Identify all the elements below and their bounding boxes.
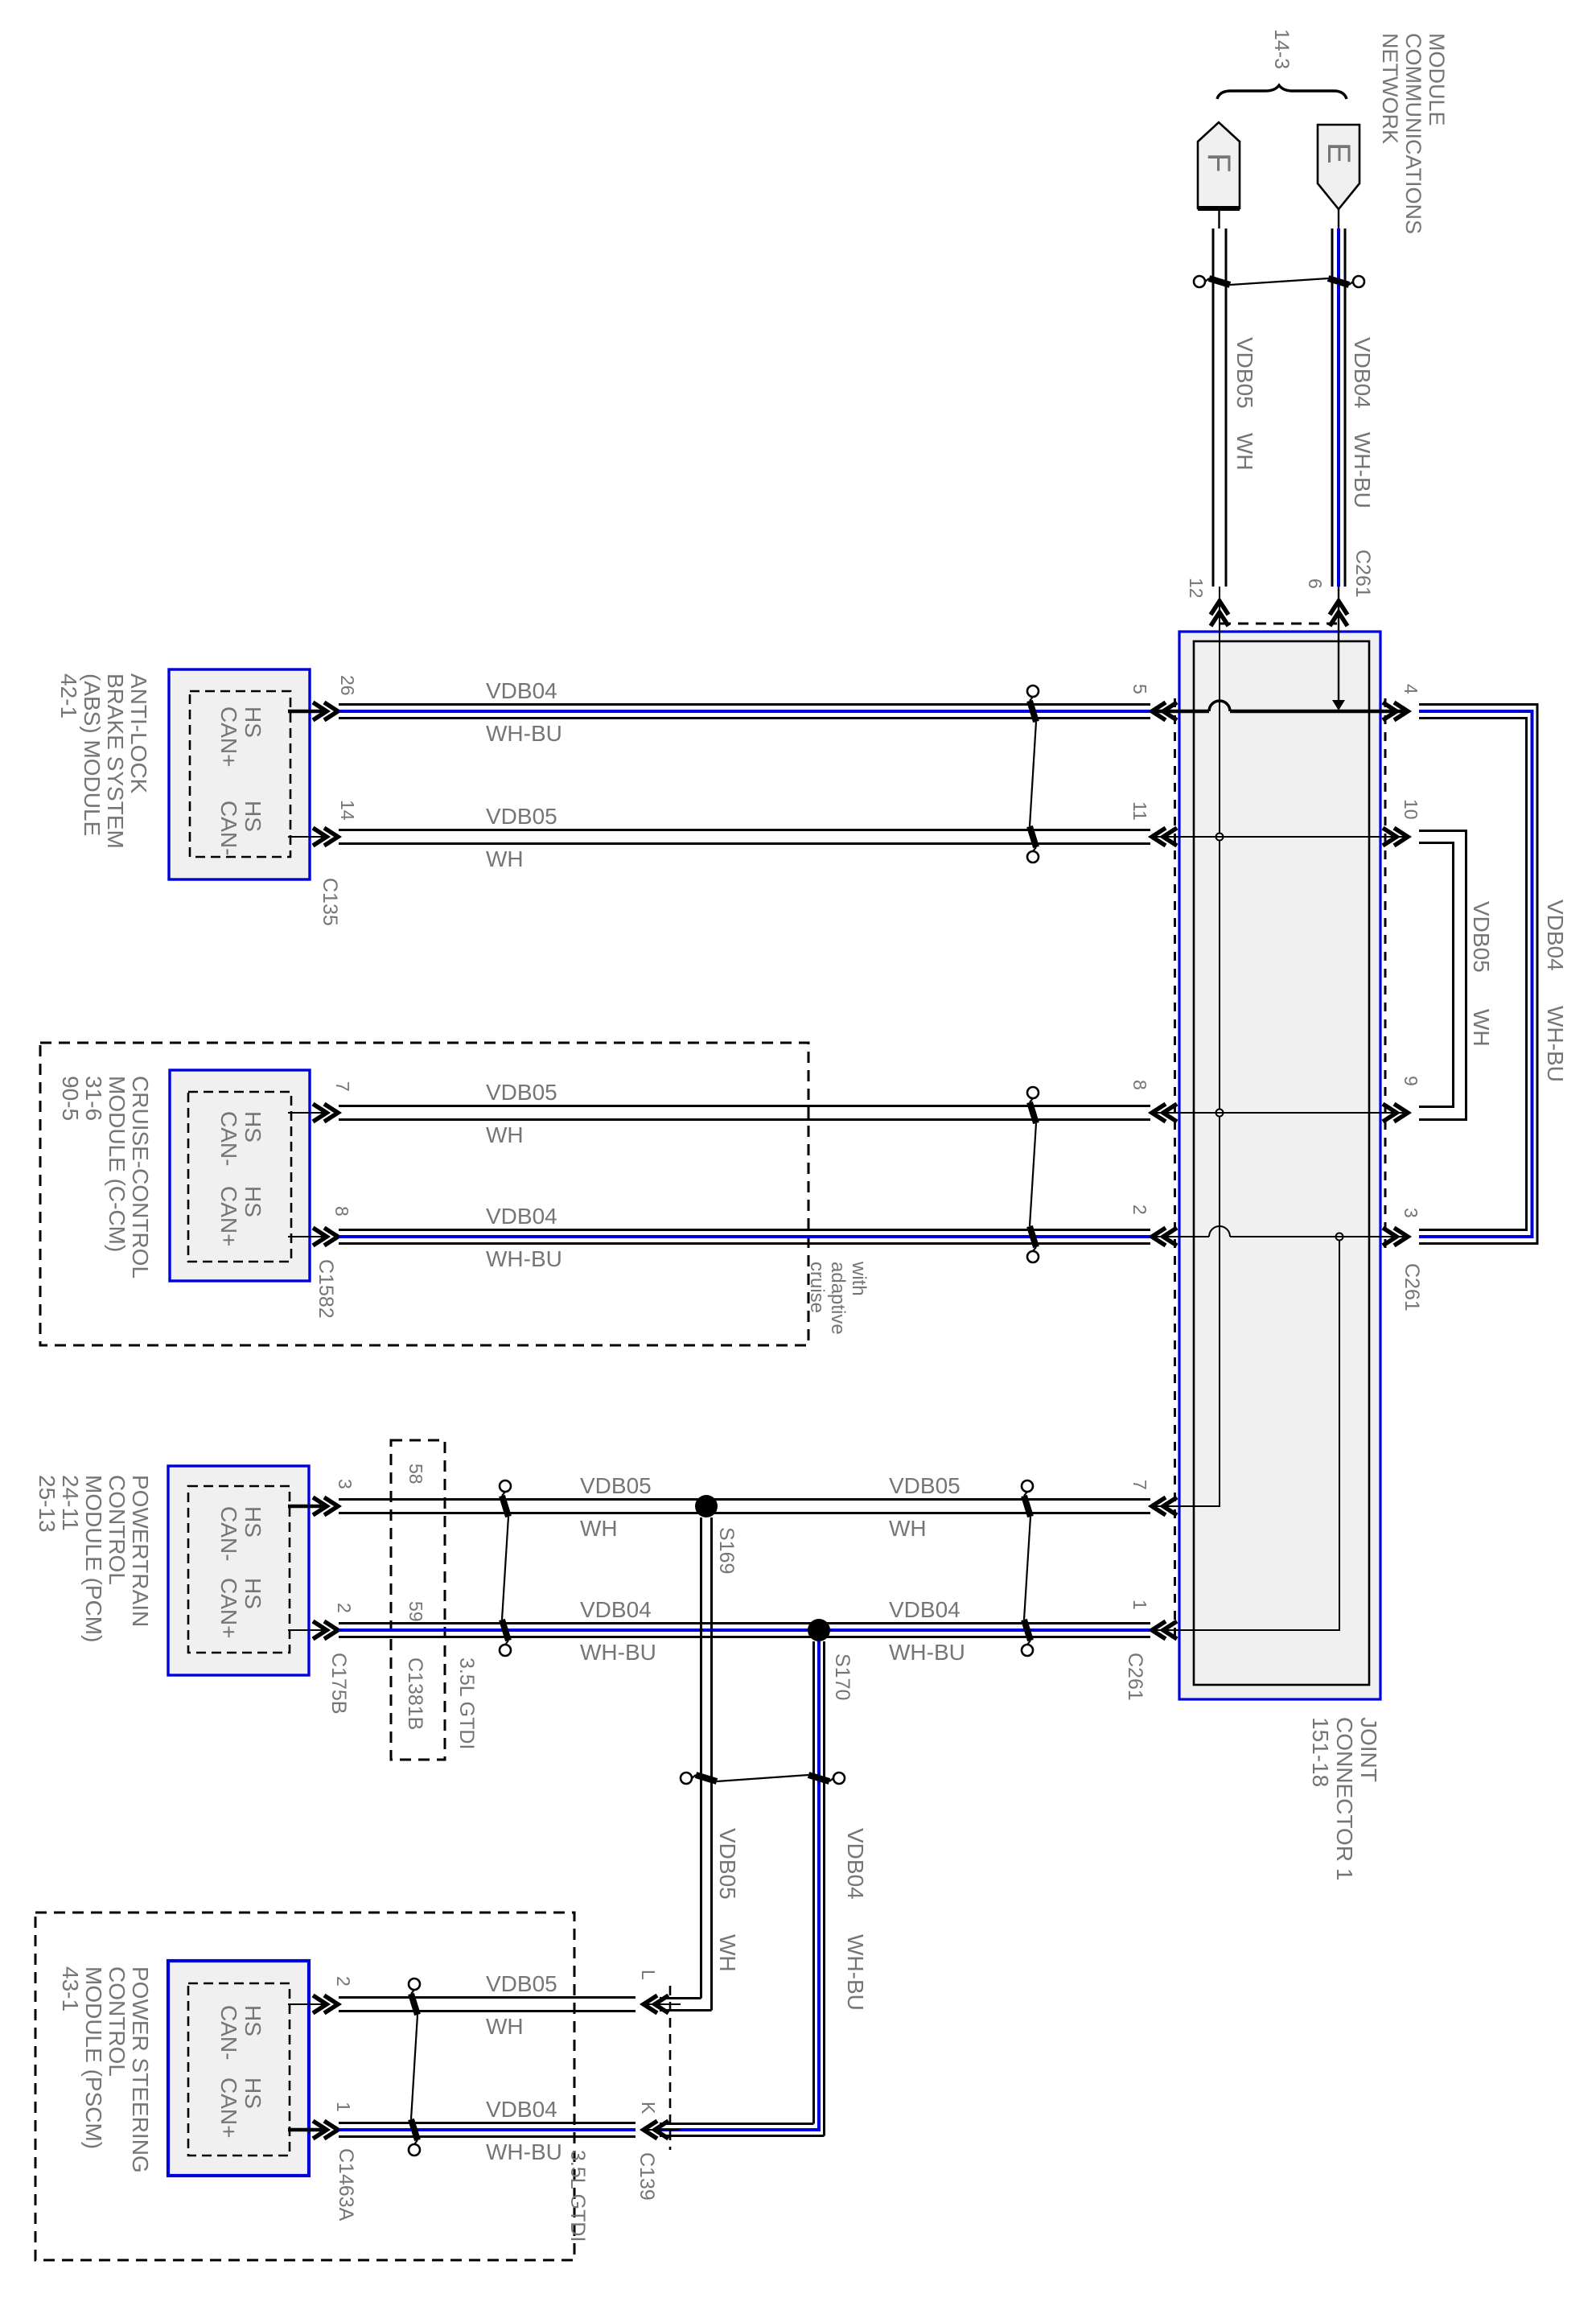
bus row pins 2-3 (CAN+) [1154,1236,1209,1237]
junction circle row 3 [1336,1233,1343,1241]
PSCM pin 1 arrow [313,2121,338,2139]
svg-text:POWER STEERING: POWER STEERING [128,1966,153,2173]
svg-text:with: with [848,1261,870,1296]
svg-text:2: 2 [333,1976,354,1987]
joint connector 1 outer blue box [1179,632,1380,1699]
svg-text:2: 2 [1129,1204,1150,1215]
twisted-pair symbol (E/F wires) [1194,276,1205,287]
svg-text:11: 11 [1129,801,1150,821]
svg-text:WH-BU: WH-BU [889,1640,965,1665]
C-CM pin 8 stub [288,1236,324,1237]
svg-text:HS: HS [241,1578,265,1609]
svg-text:ANTI-LOCK: ANTI-LOCK [126,673,151,794]
anti-lock brake system (ABS) module box [169,669,310,879]
svg-text:WH: WH [486,846,524,871]
PCM pin 3 stub [288,1505,324,1509]
svg-text:90-5: 90-5 [58,1076,83,1121]
svg-text:CONTROL: CONTROL [105,1966,130,2077]
svg-text:POWERTRAIN: POWERTRAIN [128,1475,153,1627]
svg-text:S170: S170 [831,1653,854,1700]
adaptive cruise option dashed box [40,1043,808,1345]
svg-text:CONNECTOR 1: CONNECTOR 1 [1332,1717,1357,1880]
junction circle row 8 [1216,1110,1224,1117]
svg-text:WH-BU: WH-BU [1350,432,1375,509]
svg-text:3: 3 [1401,1208,1421,1218]
pin 9 arrow [1383,1104,1408,1122]
svg-text:CAN-: CAN- [216,801,241,855]
svg-text:3.5L GTDI: 3.5L GTDI [455,1657,478,1749]
wire VDB05 WH (ABS 14 to joint 11) [339,829,1150,831]
internal wire row 3 to pin 1 row [1154,1237,1339,1630]
svg-text:1: 1 [333,2102,354,2112]
svg-text:C261: C261 [1124,1653,1146,1701]
svg-text:3: 3 [335,1479,356,1489]
wire VDB05 WH loop (pin 10 to pin 9) [1419,831,1466,1120]
svg-text:CAN-: CAN- [216,1111,241,1166]
PSCM internal dashed box [188,1983,290,2156]
PCM pin 2 arrow [313,1621,338,1639]
twisted-pair symbol (C-CM wires) [1027,1087,1039,1098]
svg-text:WH-BU: WH-BU [486,2139,562,2164]
svg-text:MODULE (PCM): MODULE (PCM) [81,1475,106,1642]
connector C261 dashed boundary left [1174,698,1176,1643]
svg-text:E: E [1321,142,1356,164]
svg-text:WH-BU: WH-BU [486,721,562,746]
wire VDB05 WH (C-CM 7 to joint 8) [339,1105,1150,1107]
svg-text:C1463A: C1463A [335,2148,357,2221]
C139 pin K arrow [644,2121,668,2139]
svg-text:cruise: cruise [806,1262,828,1313]
wire VDB05 WH (PSCM 2 to C139 L) [339,1996,636,1999]
PCM internal dashed box [188,1486,290,1653]
ABS pin 14 arrow [313,828,338,846]
svg-text:MODULE: MODULE [1425,33,1449,126]
svg-text:151-18: 151-18 [1308,1717,1333,1787]
pin 10 arrow [1383,828,1408,846]
svg-text:WH: WH [580,1516,618,1541]
C-CM pin 7 arrow [313,1104,338,1122]
joint connector 1 inner bus bar [1194,641,1369,1685]
svg-text:31-6: 31-6 [81,1076,106,1121]
svg-text:42-1: 42-1 [56,673,81,719]
C-CM pin 7 stub [288,1112,324,1114]
PCM pin 3 arrow [313,1497,338,1515]
svg-text:adaptive: adaptive [827,1262,849,1335]
pin 8 arrow [1152,1104,1177,1122]
wire VDB04 WH-BU (ABS 26 to joint 5) [339,703,1150,706]
junction circle row 11 [1216,834,1224,841]
connector C261 dashed line (top) [1220,623,1339,625]
twisted-pair symbol (PCM wires near module) [500,1480,511,1492]
svg-text:CAN+: CAN+ [216,706,241,767]
svg-text:4: 4 [1401,684,1421,694]
svg-text:CAN-: CAN- [216,1506,241,1561]
connector C1381B dashed box [391,1440,445,1760]
wire VDB05 WH (S169 to C139 L) [700,1517,702,1999]
twisted-pair symbol (PSCM wires) [409,1979,420,1990]
wire VDB04 WH-BU loop (pin 4 to pin 3) [1419,705,1537,1244]
bus row pins 11-10 (CAN-) [1154,836,1406,838]
svg-text:VDB05: VDB05 [486,804,557,829]
wire VDB05 WH (PCM 3 to joint 7) [339,1498,1150,1501]
svg-text:VDB05: VDB05 [1469,901,1494,973]
twisted-pair symbol (ABS wires) [1027,686,1039,697]
twisted-pair symbol (PCM wires near joint connector) [1022,1480,1033,1492]
svg-text:VDB04: VDB04 [843,1828,868,1900]
svg-text:L: L [638,1970,659,1980]
svg-text:8: 8 [1129,1080,1150,1090]
svg-text:CONTROL: CONTROL [105,1475,130,1585]
svg-text:WH: WH [1469,1009,1494,1047]
internal wire from pin 12 to pin 7 row [1154,587,1220,1506]
svg-text:HS: HS [241,1506,265,1538]
bus row pins 5-4 (CAN+) [1154,710,1209,714]
svg-text:25-13: 25-13 [35,1475,60,1533]
svg-text:F: F [1201,153,1236,172]
svg-text:12: 12 [1186,578,1207,599]
svg-text:14-3: 14-3 [1270,29,1293,69]
svg-text:HS: HS [241,801,265,832]
svg-text:CAN-: CAN- [216,2005,241,2060]
wire stub below F [1218,208,1220,229]
svg-text:VDB04: VDB04 [1543,900,1568,971]
off-page connector F [1198,122,1240,208]
PSCM pin 2 stub [288,2003,324,2005]
svg-text:C1582: C1582 [315,1259,337,1319]
svg-text:JOINT: JOINT [1356,1717,1381,1782]
svg-text:VDB04: VDB04 [580,1597,652,1622]
ABS pin 14 stub [288,836,324,838]
ABS pin 26 stub [288,710,324,714]
svg-text:26: 26 [337,675,358,696]
splice S170 [808,1619,830,1641]
svg-text:HS: HS [241,1186,265,1217]
wire VDB04 WH-BU (PCM 2 to joint 1) [339,1622,1150,1624]
power steering control module box [168,1961,309,2176]
svg-text:VDB05: VDB05 [486,1080,557,1105]
pin 4 arrow [1383,702,1408,720]
PSCM pin 2 arrow [313,1995,338,2013]
pin 2 arrow [1152,1228,1177,1246]
svg-text:WH: WH [486,1122,524,1147]
svg-text:VDB04: VDB04 [486,678,557,703]
svg-text:WH: WH [715,1934,740,1972]
svg-text:NETWORK: NETWORK [1378,33,1402,144]
svg-text:K: K [638,2102,659,2114]
svg-text:VDB05: VDB05 [715,1828,740,1900]
svg-text:WH-BU: WH-BU [580,1640,656,1665]
svg-text:WH-BU: WH-BU [1543,1006,1568,1082]
svg-text:2: 2 [334,1603,355,1613]
svg-text:58: 58 [405,1464,426,1484]
wire VDB04 WH-BU (PSCM 1 to C139 K) [339,2122,636,2124]
svg-text:C175B: C175B [327,1653,350,1714]
svg-text:HS: HS [241,2005,265,2036]
svg-text:24-11: 24-11 [58,1475,83,1531]
svg-text:C135: C135 [319,878,341,926]
svg-text:59: 59 [405,1601,426,1622]
connector C139 dashed line [669,1986,672,2150]
wire VDB04 WH-BU (S170 to C139 K) [812,1641,815,2124]
PCM pin 2 stub [288,1629,324,1631]
svg-text:C139: C139 [636,2152,658,2201]
svg-text:9: 9 [1401,1076,1421,1086]
wire VDB05 WH (F to C261 pin 12) [1212,229,1215,587]
svg-text:VDB05: VDB05 [889,1473,960,1498]
twisted-pair symbol (splice drops) [681,1773,692,1784]
svg-text:8: 8 [331,1206,352,1217]
svg-text:C261: C261 [1401,1263,1423,1311]
svg-text:VDB04: VDB04 [486,2097,557,2122]
svg-text:C261: C261 [1351,550,1374,598]
svg-text:6: 6 [1305,579,1326,589]
svg-text:VDB04: VDB04 [486,1204,557,1229]
pin 1 arrow [1152,1621,1177,1639]
C139 pin L arrow [644,1995,668,2013]
svg-text:CRUISE-CONTROL: CRUISE-CONTROL [128,1076,153,1279]
svg-text:WH-BU: WH-BU [486,1246,562,1271]
svg-text:VDB05: VDB05 [580,1473,652,1498]
svg-text:10: 10 [1401,799,1421,820]
svg-text:14: 14 [337,800,358,821]
svg-text:COMMUNICATIONS: COMMUNICATIONS [1401,33,1425,234]
svg-text:43-1: 43-1 [58,1966,83,2011]
svg-text:CAN+: CAN+ [216,2077,241,2138]
wire VDB04 WH-BU (C-CM 8 to joint 2) [339,1229,1150,1231]
svg-text:WH: WH [1232,433,1257,471]
svg-text:CAN+: CAN+ [216,1578,241,1638]
svg-text:S169: S169 [715,1527,738,1574]
pin 11 arrow [1152,828,1177,846]
svg-text:MODULE (C-CM): MODULE (C-CM) [105,1076,130,1252]
svg-text:7: 7 [1129,1480,1150,1490]
svg-text:C1381B: C1381B [404,1657,426,1730]
ABS pin 26 arrow [313,702,338,720]
svg-text:HS: HS [241,706,265,738]
svg-text:CAN+: CAN+ [216,1186,241,1246]
splice S169 [695,1495,718,1517]
C-CM internal dashed box [188,1092,291,1262]
svg-text:HS: HS [241,1111,265,1143]
PSCM pin 1 stub [288,2128,324,2132]
powertrain control module box [168,1466,309,1675]
svg-text:5: 5 [1129,684,1150,694]
off-page connector E [1318,125,1359,209]
svg-text:VDB05: VDB05 [486,1971,557,1996]
svg-text:VDB05: VDB05 [1232,337,1257,409]
svg-text:BRAKE SYSTEM: BRAKE SYSTEM [103,673,128,849]
connector C261 dashed boundary right [1384,698,1387,1249]
svg-text:3.5L GTDI: 3.5L GTDI [566,2150,589,2242]
wire stub below E [1338,209,1339,229]
svg-text:WH: WH [486,2014,524,2039]
svg-text:WH-BU: WH-BU [843,1934,868,2011]
bus row pins 8-9 (CAN-) [1154,1112,1406,1114]
pin 3 arrow [1383,1228,1408,1246]
pin 6 arrow [1330,601,1347,626]
pin 12 arrow [1211,601,1228,626]
pin 5 arrow [1152,702,1177,720]
ABS internal dashed box [190,691,290,857]
svg-text:1: 1 [1129,1600,1150,1610]
wire VDB04 WH-BU (E to C261 pin 6) [1331,229,1334,587]
pin 7 arrow [1152,1497,1177,1515]
internal wire from pin 6 to row 4 [1338,587,1339,706]
svg-text:MODULE (PSCM): MODULE (PSCM) [81,1966,106,2149]
C-CM pin 8 arrow [313,1228,338,1246]
cruise-control module box [170,1070,310,1281]
svg-text:HS: HS [241,2077,265,2109]
PSCM option dashed box [35,1913,574,2260]
svg-text:(ABS) MODULE: (ABS) MODULE [80,673,105,836]
svg-text:VDB04: VDB04 [1350,337,1375,409]
svg-text:7: 7 [332,1081,353,1092]
bus row pin 7 (CAN-) [1154,1505,1220,1507]
svg-text:VDB04: VDB04 [889,1597,960,1622]
svg-text:WH: WH [889,1516,927,1541]
